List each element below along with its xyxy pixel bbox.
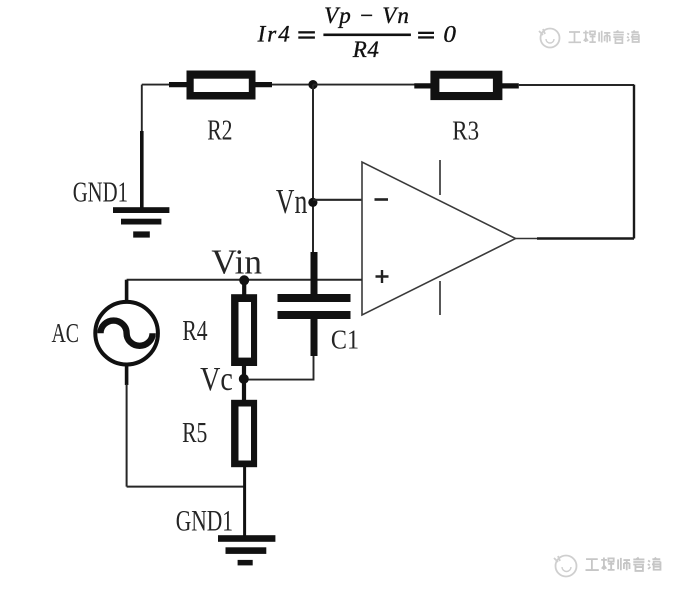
resistor R4 [231, 294, 257, 366]
wire Vn to op-amp minus input [313, 199, 362, 201]
ground GND1 bottom [218, 535, 275, 565]
wire middle vertical (junction to C1) [312, 85, 314, 254]
formula Ir4 = (Vp - Vn)/R4 = 0 [257, 3, 456, 62]
svg-text:R4: R4 [182, 315, 208, 347]
capacitor C1 [278, 294, 351, 319]
wire AC bottom vertical [126, 384, 128, 487]
AC source V1 [95, 280, 158, 385]
node Vn [308, 198, 317, 207]
resistor R5 [231, 400, 257, 467]
svg-text:Ir4: Ir4 [257, 22, 290, 47]
svg-text:AC: AC [52, 317, 80, 348]
wire output horizontal [537, 237, 634, 239]
op-amp U1 [362, 160, 516, 315]
wire Vin to R4 lead [242, 280, 246, 295]
wire R4 to Vc [242, 365, 246, 380]
resistor R2 [169, 71, 272, 100]
wire right vertical (feedback) [633, 85, 635, 239]
watermark logo top right [539, 29, 560, 48]
wire R5 to ground [243, 466, 246, 536]
wire C1 to Vc corner [245, 356, 314, 380]
svg-text:R5: R5 [182, 417, 207, 449]
svg-text:R3: R3 [452, 115, 479, 146]
node junction top [308, 80, 317, 89]
node Vc [239, 374, 249, 384]
wire R3 to right corner [519, 84, 634, 86]
svg-text:C1: C1 [331, 324, 359, 354]
watermark logo bottom right [554, 556, 577, 577]
resistor R3 [414, 71, 519, 100]
svg-text:Vn: Vn [276, 182, 307, 221]
watermark text 工程师看海 top right [569, 31, 640, 44]
wire junction to R3 [313, 84, 415, 86]
capacitor C1 lead bottom [311, 319, 318, 356]
svg-text:Vp − Vn: Vp − Vn [324, 3, 409, 28]
svg-text:R4: R4 [352, 37, 379, 62]
svg-text:Vc: Vc [200, 361, 233, 398]
capacitor C1 lead top [311, 252, 318, 295]
node Vin [239, 275, 249, 285]
wire left vertical thick (ground lead) [140, 131, 144, 208]
watermark text 工程师看海 bottom right [586, 558, 662, 571]
wire Vc to R5 [242, 379, 246, 401]
ground GND1 top-left [113, 207, 169, 237]
wire R2 to junction [272, 84, 313, 86]
wire Vin horizontal (AC to op-amp plus input) [127, 279, 362, 281]
svg-text:GND1: GND1 [73, 178, 128, 209]
wire left vertical thin [141, 85, 143, 133]
svg-text:GND1: GND1 [176, 504, 233, 537]
svg-text:Vin: Vin [211, 242, 262, 281]
svg-text:R2: R2 [207, 116, 232, 147]
svg-text:0: 0 [443, 22, 456, 48]
wire output stub [516, 238, 537, 240]
wire top horizontal (GND1 corner to R2) [142, 84, 170, 86]
wire AC bottom horizontal [127, 486, 245, 488]
